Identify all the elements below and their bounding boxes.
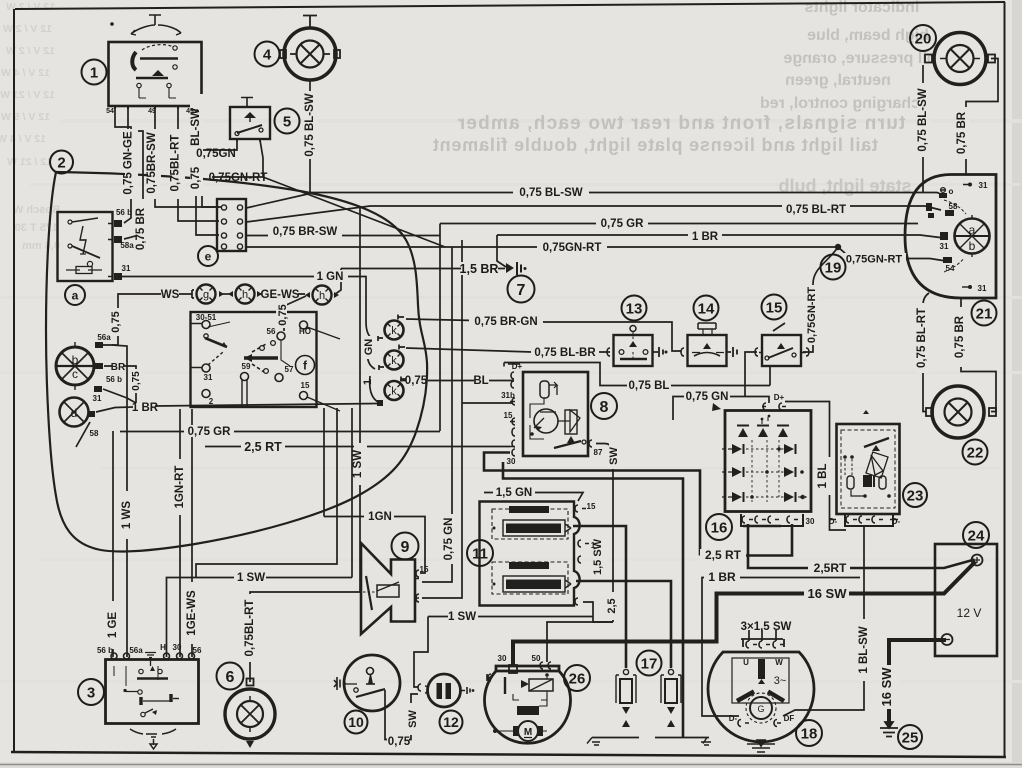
vibration symbol above relay 1 [131, 15, 181, 34]
svg-text:0,75 BL-BR: 0,75 BL-BR [534, 347, 596, 359]
svg-text:0,75GN-RT: 0,75GN-RT [209, 172, 268, 184]
thick cable 16 SW battery to starter [513, 562, 976, 667]
svg-text:2,5RT: 2,5RT [814, 561, 847, 575]
starter with relay 26 [485, 662, 571, 743]
svg-text:turn signals, front and rear t: turn signals, front and rear two each, a… [457, 113, 906, 134]
svg-text:1: 1 [362, 379, 374, 385]
diode board 16 [712, 403, 811, 526]
wire 58 stub at lamp d [76, 422, 90, 447]
alternator 18 [708, 639, 814, 752]
bus 0,75 GR [440, 223, 918, 225]
svg-text:h: h [319, 290, 325, 302]
svg-text:31b: 31b [501, 391, 515, 400]
ground hatch at plug rail left [587, 738, 600, 746]
svg-text:0,75 GN: 0,75 GN [686, 391, 729, 403]
svg-text:12 V / 5 W: 12 V / 5 W [1, 111, 50, 123]
mirrored bleed-through text top left [0, 1, 55, 168]
svg-text:175 T 30: 175 T 30 [15, 222, 58, 234]
svg-text:1 SW: 1 SW [352, 450, 364, 478]
svg-text:30: 30 [806, 517, 815, 526]
svg-text:2: 2 [57, 155, 65, 172]
elbow 1 BR down to suppressor 7 [497, 235, 506, 267]
wire 0,75 from lamp h2 to switch f pin 56 [284, 296, 306, 331]
ignition coils 11 [480, 502, 590, 606]
wire 1 GE from box 3 pin 56b up [112, 431, 114, 657]
wire from headlamp pin 56b [103, 389, 136, 403]
wire 0,75 GN vertical to horn pin [422, 247, 452, 582]
svg-text:31: 31 [122, 264, 131, 273]
ground hatch at plug rail right [701, 738, 711, 746]
indicator lamp g [192, 285, 224, 304]
svg-text:7: 7 [517, 282, 526, 299]
svg-text:BL: BL [473, 375, 488, 387]
svg-text:12 V / 2 W: 12 V / 2 W [3, 23, 52, 35]
svg-text:GE-WS: GE-WS [261, 289, 300, 301]
svg-text:2,5: 2,5 [606, 598, 618, 613]
svg-text:1GE-WS: 1GE-WS [186, 590, 198, 636]
svg-text:1 SW: 1 SW [448, 611, 476, 623]
svg-text:0,75GN-RT: 0,75GN-RT [846, 254, 903, 266]
wire 0,75BL-RT from relay 1 to connector e [178, 106, 219, 221]
svg-text:54: 54 [106, 108, 114, 115]
svg-text:56a: 56a [129, 646, 143, 655]
wire 1 SW horizontal [428, 616, 593, 618]
callout 5 [275, 109, 300, 134]
svg-text:0,75: 0,75 [110, 311, 122, 332]
bus 0,75 BL-RT from connector e to tail light pin 58 [246, 206, 941, 222]
callout 12 [440, 711, 463, 734]
callout 3 [78, 679, 104, 705]
svg-text:0,75 BR: 0,75 BR [135, 207, 147, 250]
wire 0,75 SW from switch 10 to flasher 12 [385, 690, 418, 740]
svg-text:56: 56 [267, 327, 276, 336]
bus 0,75GN-RT from connector e to junction 19 [246, 246, 838, 248]
wire 0,75 BL-SW from lamp 20 left pin down [922, 65, 924, 193]
svg-text:2,5 RT: 2,5 RT [705, 548, 742, 562]
svg-text:3: 3 [87, 685, 95, 702]
branch to lamp k2 [368, 352, 375, 369]
ground symbol top of regulator mount [699, 409, 701, 411]
wire 0,75 BL-SW from relay 1 pin to connector e [196, 106, 219, 235]
svg-text:0,75 GR: 0,75 GR [188, 426, 232, 438]
svg-text:1: 1 [591, 541, 596, 550]
relay 14 [681, 323, 737, 366]
spark plug left 17 [616, 669, 636, 737]
svg-text:D+: D+ [512, 362, 523, 371]
svg-text:1 BR: 1 BR [132, 402, 159, 414]
flasher unit 12 [418, 674, 474, 707]
svg-text:1 BL: 1 BL [817, 464, 829, 489]
svg-text:h: h [242, 289, 248, 301]
svg-text:58a: 58a [120, 241, 134, 250]
wire 1,5 BR [341, 268, 505, 270]
wire 1,5 GN to coils 11 [484, 493, 583, 502]
svg-text:11: 11 [472, 546, 488, 563]
svg-text:0,75BL-RT: 0,75BL-RT [170, 135, 182, 192]
wire 2,5 RT to unit 8 pin 30 [205, 446, 510, 448]
svg-text:0,75: 0,75 [405, 375, 428, 387]
spark plug ground rail right [655, 737, 709, 739]
svg-text:59: 59 [242, 362, 251, 371]
svg-text:1: 1 [90, 65, 98, 82]
svg-text:D-: D- [729, 714, 738, 723]
dimmer relay box a [58, 212, 123, 281]
svg-text:16: 16 [711, 520, 728, 537]
callout 7 [508, 276, 535, 303]
regulator 23 [830, 410, 900, 526]
wire to starter 50 terminal [547, 622, 613, 662]
svg-text:BR: BR [111, 362, 126, 373]
svg-text:18: 18 [801, 726, 818, 743]
svg-text:14: 14 [698, 301, 715, 318]
control unit 8 [504, 363, 592, 457]
wire 0,75 BR from lamp 20 right pin to tail light [966, 59, 998, 175]
svg-text:15: 15 [420, 565, 429, 574]
svg-text:HO: HO [299, 327, 311, 336]
svg-text:58: 58 [949, 202, 958, 211]
svg-text:0,6 mm: 0,6 mm [22, 240, 60, 252]
svg-text:1 BR: 1 BR [708, 570, 736, 584]
svg-text:o: o [949, 187, 954, 196]
tail light assembly 21 [905, 175, 996, 299]
coil HT lead to spark plug right [576, 581, 671, 668]
svg-text:21: 21 [976, 306, 993, 323]
svg-text:56 b: 56 b [116, 208, 132, 217]
svg-text:g: g [203, 289, 209, 301]
wire 0,75GN-RT from junction 19 to tail light pin 54 [838, 247, 946, 261]
svg-text:D-: D- [829, 517, 838, 526]
wire 0,75GN from switch 5 left pin to connector e [202, 140, 237, 207]
vertical drop of 0,75 GR [439, 224, 441, 432]
wire 0,75 BL from lamp k3 to unit 8 [400, 380, 513, 382]
coil HT lead to spark plug left [573, 526, 626, 668]
svg-text:12: 12 [443, 714, 459, 730]
svg-text:2,5 RT: 2,5 RT [244, 440, 282, 454]
wire 0,75 GN second vertical to horn [422, 240, 462, 598]
callout 18 [796, 720, 822, 746]
callout 1 [82, 60, 107, 85]
callout 4 [255, 42, 280, 67]
spark plug right 17 [661, 669, 681, 737]
svg-text:56a: 56a [97, 333, 111, 342]
wire 0,75 GN to diode board [673, 397, 769, 421]
svg-text:12 V / 4 W: 12 V / 4 W [0, 133, 46, 145]
svg-text:0,75: 0,75 [190, 166, 202, 189]
wire 0,75 BL-RT from tail light down to lamp 22 [923, 293, 929, 412]
parking lamp d [60, 398, 96, 427]
svg-text:2: 2 [209, 397, 214, 406]
svg-text:WS: WS [161, 289, 180, 301]
svg-text:0,75BL-RT: 0,75BL-RT [244, 600, 256, 657]
svg-text:15: 15 [766, 300, 783, 317]
svg-text:charging control, red: charging control, red [760, 95, 920, 112]
svg-text:1,5 GN: 1,5 GN [496, 487, 532, 499]
callout 23 [903, 483, 927, 507]
wire 0,75GN-RT from switch 5 right pin [212, 140, 445, 247]
svg-text:9: 9 [401, 539, 410, 556]
svg-text:0,75 BL-RT: 0,75 BL-RT [786, 204, 846, 216]
svg-text:26: 26 [569, 671, 586, 688]
svg-text:5: 5 [283, 114, 291, 131]
svg-text:k: k [391, 355, 397, 367]
svg-text:M: M [524, 727, 532, 738]
wire from switch 15 to 0,75 GN run [745, 352, 757, 396]
svg-text:1 BR: 1 BR [692, 231, 719, 243]
svg-text:15: 15 [587, 502, 596, 511]
svg-text:31: 31 [93, 394, 102, 403]
bus labels [268, 186, 906, 276]
bus 0,75 BL-SW [310, 193, 943, 196]
callout 25 [898, 725, 922, 749]
svg-text:0,75: 0,75 [277, 304, 289, 325]
elbow 1,5 BR up to lamp h [334, 269, 341, 296]
border frame [15, 2, 1005, 9]
svg-text:58: 58 [90, 429, 99, 438]
callout 17 [637, 651, 662, 676]
svg-text:a: a [969, 223, 976, 237]
svg-text:0,75 GN-GE: 0,75 GN-GE [123, 131, 135, 195]
brake light switch 5 [230, 98, 270, 143]
flasher relay 1 [109, 42, 202, 109]
wire 1 SW from box 3 pin H [167, 578, 353, 658]
stub relay 13 right pin [653, 351, 658, 353]
svg-text:4: 4 [263, 47, 272, 64]
svg-text:1 SW: 1 SW [237, 572, 265, 584]
svg-text:12 V / 21 W: 12 V / 21 W [0, 89, 55, 101]
wire 1 WS from box 3 pin 56a up [112, 345, 127, 657]
svg-text:1GN: 1GN [368, 511, 392, 523]
horn 9 [361, 543, 419, 634]
wire 1 BR from alternator D- [702, 578, 860, 717]
wire 1 BL from diode board D+ to regulator [785, 402, 846, 531]
svg-text:SW: SW [407, 710, 419, 728]
wire 1 GN from box a pin 31 [118, 277, 374, 341]
svg-text:31: 31 [978, 284, 987, 293]
svg-text:oil pressure, orange: oil pressure, orange [783, 50, 936, 67]
svg-text:3×1,5 SW: 3×1,5 SW [741, 621, 792, 633]
cable 2,5 RT diode board to battery plus [748, 524, 975, 568]
svg-text:H: H [160, 643, 166, 652]
wire from unit 8 top to 0,75 BL [504, 363, 770, 386]
callout 6 [217, 663, 244, 690]
svg-text:0,75 GR: 0,75 GR [601, 218, 645, 230]
svg-text:10: 10 [348, 714, 364, 730]
spark plug ground rail left [592, 737, 639, 739]
svg-text:d: d [71, 406, 78, 420]
svg-text:12 V: 12 V [957, 606, 982, 620]
relay 13 [607, 326, 668, 367]
svg-text:0,75 BL: 0,75 BL [629, 380, 670, 392]
callout 22 [963, 440, 988, 465]
svg-text:56: 56 [193, 646, 202, 655]
svg-text:49: 49 [148, 108, 156, 115]
parking lamp 6 [225, 679, 275, 749]
svg-text:20: 20 [915, 31, 932, 48]
svg-text:13: 13 [626, 301, 643, 318]
svg-text:SW: SW [608, 447, 620, 465]
svg-text:0,75 BR-SW: 0,75 BR-SW [273, 226, 338, 238]
callout 9 [392, 533, 419, 560]
svg-text:0,75: 0,75 [131, 371, 142, 391]
battery 24 [935, 544, 997, 656]
svg-text:30: 30 [498, 654, 507, 663]
scan streaks [0, 119, 1022, 123]
svg-text:25: 25 [902, 730, 919, 747]
ignition light switch f [190, 312, 340, 411]
bus 1 BR to tail light pin 31 [497, 235, 944, 238]
headlight shell outline (component 2 oval) [46, 172, 427, 551]
ground symbol below box 3 [130, 729, 176, 749]
mirrored bleed-through text left middle [12, 204, 60, 252]
svg-text:6: 6 [226, 669, 235, 686]
callout e [198, 246, 218, 266]
indicator lamp h2 [305, 286, 339, 305]
svg-text:22: 22 [967, 445, 984, 462]
wire coil to 1 SW junction [583, 602, 613, 622]
svg-text:U: U [743, 658, 749, 667]
svg-text:30: 30 [507, 457, 516, 466]
turn indicator lamp k2 [379, 345, 405, 371]
wire lamp h to GE-WS label [257, 293, 305, 295]
svg-text:0,75 BR: 0,75 BR [954, 315, 966, 358]
diagonal from connector e to bus 0,75 BL-SW [246, 194, 310, 209]
svg-text:16 SW: 16 SW [807, 586, 847, 601]
svg-text:8: 8 [600, 399, 609, 416]
wire BR from headlamp b/c middle pin [104, 366, 136, 403]
wire 0,75 BR from tail light down to lamp 22 [961, 298, 996, 412]
svg-text:3~: 3~ [774, 675, 787, 687]
svg-text:87: 87 [594, 448, 603, 457]
svg-text:30-51: 30-51 [196, 313, 217, 322]
svg-text:0,75 GN: 0,75 GN [443, 518, 455, 561]
svg-text:56 b: 56 b [97, 646, 113, 655]
mirrored bleed-through text top right [432, 0, 936, 196]
indicator lamp 20 [925, 33, 995, 85]
wire 0,75 GN-GE from relay 1 pin 54 to box a [115, 106, 131, 223]
callout 14 [694, 296, 719, 321]
svg-text:0,75GN-RT: 0,75GN-RT [806, 287, 818, 344]
wire 0,75 BR-GN from lamp k1 to relay 14 [406, 319, 681, 351]
svg-text:31: 31 [204, 373, 213, 382]
wire 0,75GN-RT from junction 19 down to switch 15 [803, 247, 838, 352]
vertical 1 SW [351, 408, 353, 578]
svg-text:23: 23 [907, 488, 924, 505]
callout 26 [564, 665, 590, 691]
callout 24 [963, 522, 989, 548]
svg-text:1,5 BR: 1,5 BR [460, 262, 499, 276]
turn indicator lamp k1 [378, 315, 404, 342]
svg-text:DF: DF [784, 714, 795, 723]
callout f [296, 356, 315, 375]
handlebar switch 10 [334, 655, 400, 711]
wire 1 GN to horn 9 [324, 408, 425, 573]
bottom right labels [700, 549, 746, 561]
svg-text:19: 19 [825, 260, 842, 277]
callout 8 [591, 393, 617, 419]
svg-text:e: e [205, 250, 212, 264]
svg-text:17: 17 [641, 656, 658, 673]
wire 1GE-WS from box 3 pin 56 up [191, 409, 193, 657]
suppressor 7 [506, 262, 527, 275]
svg-text:31: 31 [979, 181, 988, 190]
svg-text:G: G [757, 704, 764, 714]
svg-text:a: a [72, 289, 79, 303]
svg-text:30: 30 [173, 643, 182, 652]
svg-text:k: k [391, 325, 397, 337]
stub relay 14 right pin [726, 351, 731, 353]
svg-text:W: W [775, 658, 783, 667]
wire between lamp g and lamp h [219, 293, 233, 295]
wire 1 BL-SW from regulator to alternator DF [783, 527, 864, 716]
headlamp bulb b/c [56, 342, 103, 392]
turn indicator lamp k3 [377, 377, 406, 407]
svg-text:54: 54 [946, 264, 955, 273]
rear turn signal lamp 22 [926, 386, 996, 438]
callout 16 [706, 514, 732, 540]
svg-text:1 GN: 1 GN [317, 271, 344, 283]
wire SW from unit 8 pin 87 [596, 444, 613, 623]
cable to engine ground [503, 462, 683, 738]
callout 10 [345, 711, 368, 734]
callout 11 [467, 540, 493, 566]
callout 20 [910, 25, 936, 51]
svg-text:50: 50 [532, 654, 541, 663]
indicator lamp h1 [228, 285, 262, 304]
svg-text:56 b: 56 b [106, 375, 122, 384]
svg-text:49v: 49v [186, 108, 198, 115]
svg-text:24: 24 [968, 528, 985, 545]
connector e [217, 199, 246, 251]
thick cable 16 SW battery minus to ground 25 [889, 640, 946, 727]
svg-text:D-: D- [892, 517, 901, 526]
svg-text:0,75: 0,75 [388, 736, 411, 748]
svg-text:16 SW: 16 SW [879, 667, 894, 707]
svg-text:12 V / 4 W: 12 V / 4 W [1, 67, 50, 79]
ground symbol 25 [880, 722, 898, 737]
svg-text:1 BL-SW: 1 BL-SW [858, 626, 870, 673]
wire pair above 1 SW [196, 408, 337, 578]
svg-text:0,75 BL-RT: 0,75 BL-RT [916, 308, 928, 368]
svg-text:0,75 BR: 0,75 BR [956, 111, 968, 154]
callout 13 [622, 296, 647, 321]
branch to unit 8 pin 31b [462, 402, 513, 404]
wire 0,75BR-SW from relay 1 to connector e [155, 106, 219, 207]
svg-text:b: b [969, 239, 976, 253]
callout 19 [821, 255, 846, 280]
wire 0,75 BR-SW from connector e [246, 235, 440, 237]
svg-text:0,75GN: 0,75GN [196, 148, 236, 160]
svg-text:0,75 BL-SW: 0,75 BL-SW [917, 88, 929, 151]
svg-text:15: 15 [504, 411, 513, 420]
svg-text:D+: D+ [774, 393, 785, 402]
wire 3x1,5 SW to alternator [749, 630, 776, 641]
svg-text:Bosch W: Bosch W [12, 204, 60, 216]
front turn signal lamp 4 [280, 16, 340, 81]
wire 0,75 GR horizontal to lamps [120, 431, 440, 433]
svg-text:0,75 BL-SW: 0,75 BL-SW [304, 93, 316, 156]
svg-text:0,75BR-SW: 0,75BR-SW [146, 132, 158, 193]
svg-text:57: 57 [285, 365, 294, 374]
wire 0,75 BR from relay 1 to box a pin 56a [124, 106, 143, 239]
svg-text:0,75 BL-SW: 0,75 BL-SW [519, 187, 582, 199]
svg-text:1 GE: 1 GE [107, 612, 119, 639]
svg-text:tail light and license plate l: tail light and license plate light, doub… [432, 135, 878, 155]
wire 0,75 BL-SW from lamp 4 down to bus [309, 81, 311, 193]
callout 21 [972, 301, 997, 326]
svg-text:0,75GN-RT: 0,75GN-RT [543, 242, 602, 254]
headlight switch box 3 [106, 653, 199, 724]
switch 15 [755, 323, 809, 366]
